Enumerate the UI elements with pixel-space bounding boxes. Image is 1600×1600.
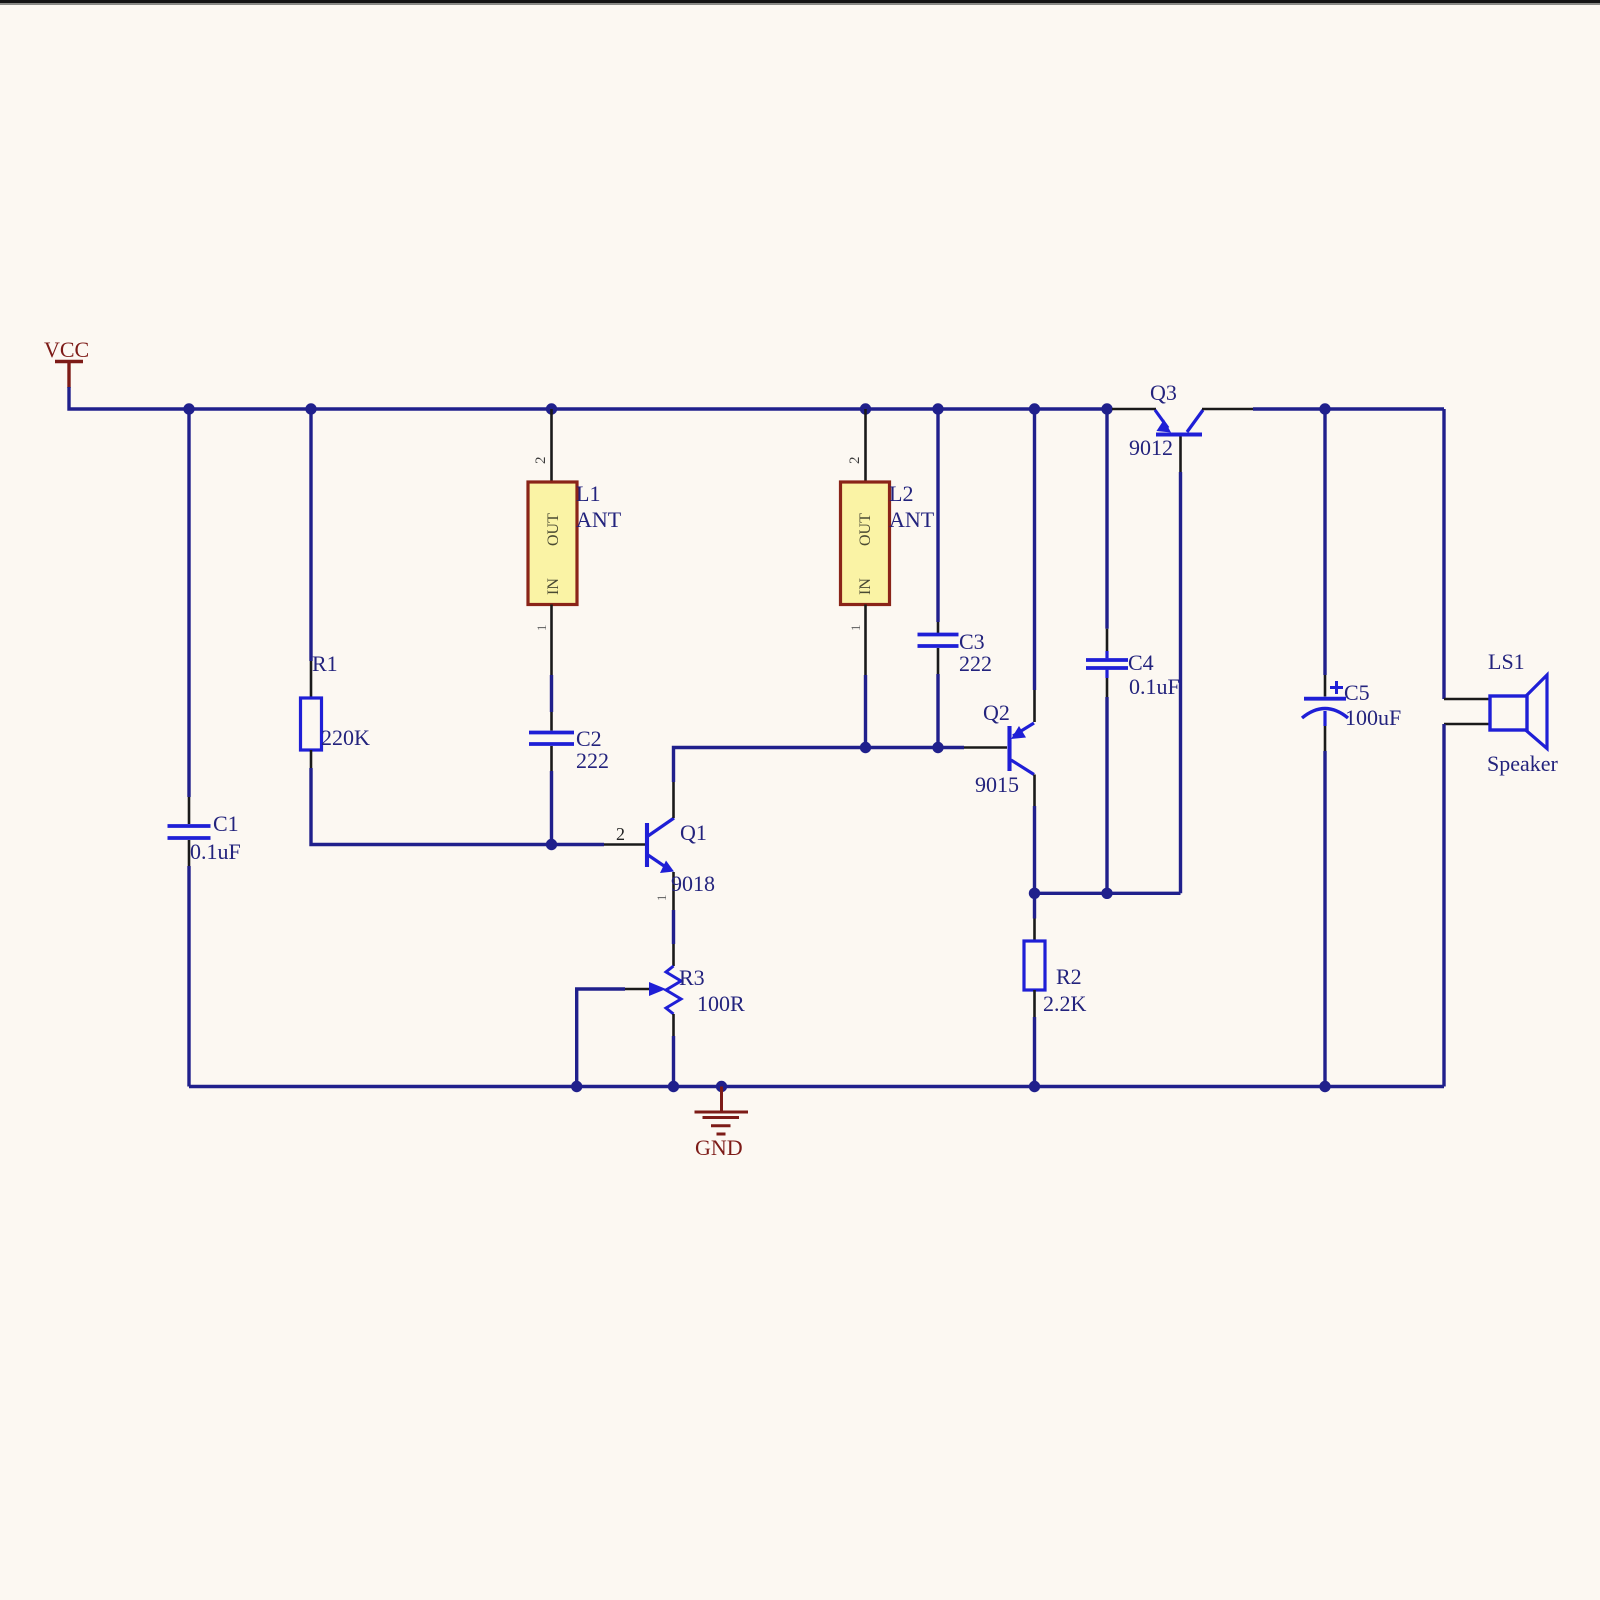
wire Q2 collector / C4 / Q3 base [1035, 892, 1181, 895]
node VCC-L1 [546, 403, 557, 414]
svg-text:VCC: VCC [44, 337, 89, 362]
wire ground rail [189, 1085, 1444, 1088]
svg-text:C5: C5 [1344, 680, 1370, 705]
capacitor C5 [1302, 409, 1401, 1087]
capacitor C4 [1086, 409, 1180, 893]
resistor R1 [301, 409, 371, 769]
node VCC-C4 [1101, 403, 1112, 414]
svg-text:OUT: OUT [545, 513, 562, 546]
resistor R2 [1024, 893, 1087, 1086]
svg-text:Q1: Q1 [680, 820, 707, 845]
VCC power symbol [55, 362, 83, 389]
node R3 wiper on rail [571, 1081, 582, 1092]
svg-text:0.1uF: 0.1uF [190, 839, 241, 864]
wire R3 wiper leg [577, 989, 625, 1087]
rheostat R3 [625, 944, 745, 1087]
node VCC-C3 [932, 403, 943, 414]
svg-text:9012: 9012 [1129, 435, 1173, 460]
inductor L2 [841, 409, 935, 748]
node R2 top [1029, 888, 1040, 899]
node B (L2 bottom) [860, 742, 871, 753]
svg-text:9018: 9018 [671, 871, 715, 896]
node VCC-R1 [305, 403, 316, 414]
svg-text:Q2: Q2 [983, 700, 1010, 725]
svg-text:R1: R1 [312, 651, 338, 676]
svg-text:IN: IN [857, 578, 874, 595]
wire Q3 collector rail [1253, 407, 1444, 410]
top border bar [0, 0, 1600, 3]
svg-text:9015: 9015 [975, 772, 1019, 797]
node R2 bottom on rail [1029, 1081, 1040, 1092]
svg-text:OUT: OUT [857, 513, 874, 546]
svg-text:ANT: ANT [889, 507, 935, 532]
node C3 bottom [932, 742, 943, 753]
svg-text:R3: R3 [679, 965, 705, 990]
node C4 bottom [1101, 888, 1112, 899]
inductor L1 [528, 409, 622, 675]
svg-text:ANT: ANT [576, 507, 622, 532]
svg-text:222: 222 [576, 748, 609, 773]
capacitor C3 [918, 409, 993, 748]
svg-text:Q3: Q3 [1150, 380, 1177, 405]
svg-text:LS1: LS1 [1488, 649, 1525, 674]
wire Q1 emitter to R3 [672, 910, 675, 944]
speaker LS1 [1444, 649, 1559, 776]
svg-text:220K: 220K [321, 725, 370, 750]
svg-text:2: 2 [847, 457, 863, 465]
wire right edge (Q3 collector down to speaker) [1442, 409, 1445, 699]
svg-text:2.2K: 2.2K [1043, 991, 1087, 1016]
svg-text:L2: L2 [889, 481, 913, 506]
svg-text:222: 222 [959, 651, 992, 676]
transistor Q1 [604, 781, 715, 910]
svg-text:1: 1 [534, 625, 549, 632]
node C5 top [1319, 403, 1330, 414]
capacitor C1 [168, 409, 241, 1087]
svg-text:C1: C1 [213, 811, 239, 836]
node GND tap [716, 1081, 727, 1092]
ground symbol [695, 1087, 749, 1135]
node C5 bottom on rail [1319, 1081, 1330, 1092]
svg-text:1: 1 [848, 625, 863, 632]
wire Q1 collector to node B [674, 748, 965, 783]
svg-text:1: 1 [654, 895, 669, 902]
svg-text:C4: C4 [1128, 650, 1154, 675]
svg-text:L1: L1 [576, 481, 600, 506]
node VCC-C1 [183, 403, 194, 414]
node A (C2/R1/Q1 base) [546, 839, 557, 850]
svg-text:IN: IN [545, 578, 562, 595]
svg-text:GND: GND [695, 1135, 743, 1160]
svg-text:Speaker: Speaker [1487, 751, 1559, 776]
svg-text:2: 2 [533, 457, 549, 465]
wire speaker return to ground [1442, 724, 1445, 1087]
capacitor C2 [529, 675, 609, 845]
transistor Q3 [1112, 380, 1253, 893]
svg-text:2: 2 [616, 824, 625, 844]
svg-text:0.1uF: 0.1uF [1129, 674, 1180, 699]
node VCC-Q2 [1029, 403, 1040, 414]
wire VCC rail [69, 387, 1112, 409]
transistor Q2 [964, 409, 1035, 893]
svg-text:100uF: 100uF [1345, 705, 1401, 730]
node R3 bottom on rail [668, 1081, 679, 1092]
wire R1 to node A [311, 768, 604, 845]
svg-text:100R: 100R [697, 991, 745, 1016]
svg-text:R2: R2 [1056, 964, 1082, 989]
node VCC-L2 [860, 403, 871, 414]
